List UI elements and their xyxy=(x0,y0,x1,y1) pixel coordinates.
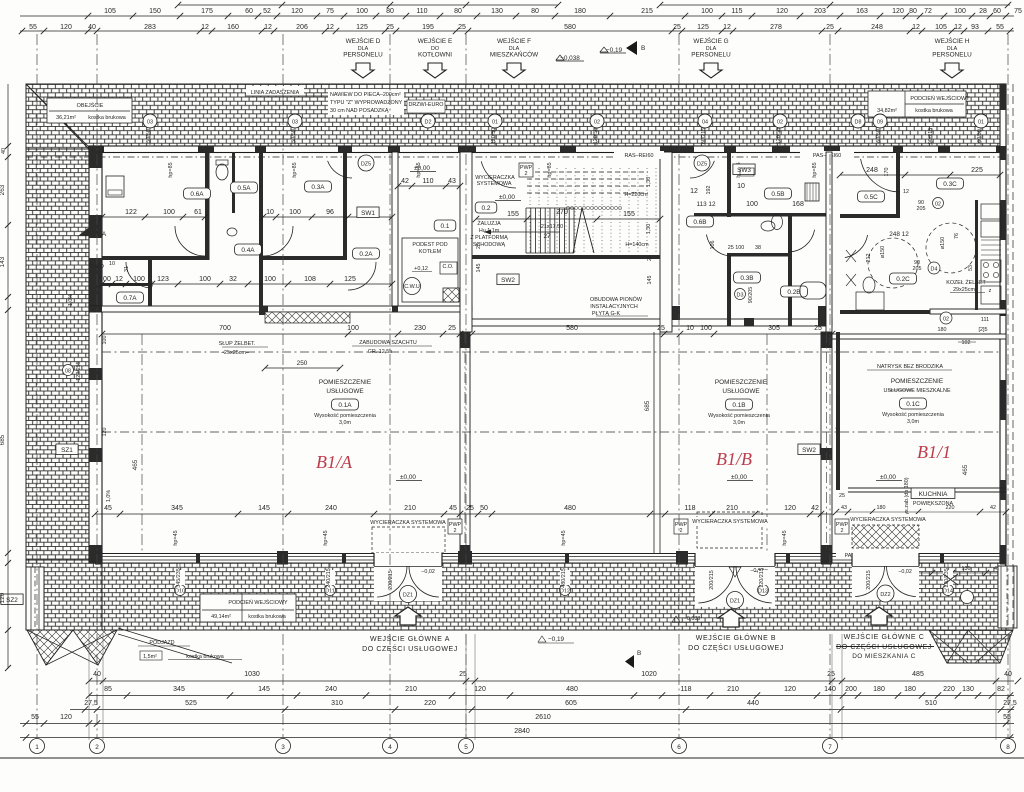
svg-text:PERSONELU: PERSONELU xyxy=(691,52,731,59)
kitchen wall xyxy=(975,200,978,310)
svg-text:12: 12 xyxy=(326,24,334,31)
svg-text:250: 250 xyxy=(297,360,308,367)
svg-text:168: 168 xyxy=(792,201,804,208)
small room wall h xyxy=(102,283,148,286)
D4 circle xyxy=(928,262,940,274)
svg-text:180: 180 xyxy=(904,686,916,693)
boiler icon xyxy=(443,288,459,302)
svg-text:90/205: 90/205 xyxy=(748,287,754,304)
drzwi label box xyxy=(407,100,445,113)
section marker B top xyxy=(626,41,637,55)
svg-text:200/215: 200/215 xyxy=(388,570,394,590)
svg-text:80/215: 80/215 xyxy=(701,128,707,145)
stair landing dashes xyxy=(527,171,648,173)
svg-text:100: 100 xyxy=(347,325,359,332)
room label 0.2A corridor xyxy=(353,248,380,259)
svg-text:525: 525 xyxy=(185,700,197,707)
svg-text:52: 52 xyxy=(263,8,271,15)
svg-text:±0,00: ±0,00 xyxy=(880,474,896,481)
svg-text:ŚCIANA REI60: ŚCIANA REI60 xyxy=(834,394,842,430)
svg-text:WEJŚCIE GŁÓWNE C: WEJŚCIE GŁÓWNE C xyxy=(844,632,925,641)
svg-text:100: 100 xyxy=(701,8,713,15)
canopy overhang dashed line xyxy=(26,156,1006,158)
svg-text:248: 248 xyxy=(866,167,878,174)
svg-text:55: 55 xyxy=(31,714,39,721)
svg-text:345: 345 xyxy=(173,686,185,693)
svg-text:215: 215 xyxy=(641,8,653,15)
svg-text:10: 10 xyxy=(266,209,274,216)
svg-text:12: 12 xyxy=(954,24,962,31)
svg-text:125: 125 xyxy=(356,24,368,31)
svg-text:283: 283 xyxy=(144,24,156,31)
svg-text:120: 120 xyxy=(892,8,904,15)
bottom-left paved corner (brick) xyxy=(26,560,102,630)
svg-text:WEJŚCIE H: WEJŚCIE H xyxy=(935,36,970,45)
svg-text:+0,12: +0,12 xyxy=(414,266,428,272)
svg-text:0.1B: 0.1B xyxy=(732,402,745,409)
stairwell wall left xyxy=(460,152,472,332)
svg-text:D8: D8 xyxy=(855,120,862,126)
svg-text:POMIESZCZENIE: POMIESZCZENIE xyxy=(319,379,371,386)
partition wall a4 xyxy=(343,152,347,260)
svg-text:130: 130 xyxy=(962,686,974,693)
right exterior wall xyxy=(1000,84,1006,563)
svg-text:38: 38 xyxy=(755,245,761,251)
svg-text:305: 305 xyxy=(768,325,780,332)
lower stair room SW2 xyxy=(497,274,519,285)
svg-text:120: 120 xyxy=(60,24,72,31)
svg-text:82: 82 xyxy=(997,686,1005,693)
svg-text:Wysokość pomieszczenia: Wysokość pomieszczenia xyxy=(882,412,944,418)
partition wall b2 h xyxy=(694,213,832,217)
left margin dim line xyxy=(7,84,9,668)
svg-text:09: 09 xyxy=(877,120,883,126)
svg-text:1,0%: 1,0% xyxy=(106,490,112,502)
circle chain xyxy=(566,206,569,209)
stair door arc xyxy=(481,161,516,188)
svg-text:02: 02 xyxy=(943,317,949,323)
svg-text:42: 42 xyxy=(401,178,409,185)
svg-text:10: 10 xyxy=(737,183,745,190)
svg-text:120/255: 120/255 xyxy=(76,361,82,381)
section marker B bottom xyxy=(625,655,634,668)
svg-text:PERSONELU: PERSONELU xyxy=(932,52,972,59)
svg-text:6: 6 xyxy=(677,744,681,751)
hall divider wall B/C xyxy=(821,332,832,563)
svg-text:200/215: 200/215 xyxy=(709,570,715,590)
partition wall b4 h xyxy=(727,253,788,257)
svg-text:PODCIEŃ WEJŚCIOWY: PODCIEŃ WEJŚCIOWY xyxy=(228,598,288,606)
svg-text:100: 100 xyxy=(954,8,966,15)
svg-text:DZ1: DZ1 xyxy=(730,599,740,605)
svg-text:hp=45: hp=45 xyxy=(323,530,329,545)
svg-text:12: 12 xyxy=(903,189,909,195)
svg-text:125: 125 xyxy=(344,276,356,283)
svg-text:0.1C: 0.1C xyxy=(906,401,920,408)
svg-text:0.3A: 0.3A xyxy=(311,184,325,191)
svg-text:2: 2 xyxy=(841,528,844,534)
door circle DZS mid xyxy=(694,155,710,171)
svg-text:DO CZĘŚCI USŁUGOWEJ: DO CZĘŚCI USŁUGOWEJ xyxy=(688,643,784,652)
paved canopy band (brick) xyxy=(26,84,1006,149)
svg-text:hp=45: hp=45 xyxy=(561,530,567,545)
svg-text:Wysokość pomieszczenia: Wysokość pomieszczenia xyxy=(708,413,770,419)
svg-text:60/50: 60/50 xyxy=(977,129,983,143)
svg-text:25: 25 xyxy=(839,493,845,499)
svg-text:[2]5: [2]5 xyxy=(979,327,988,333)
room 0.4A xyxy=(235,244,262,255)
svg-text:DZ2: DZ2 xyxy=(880,592,890,598)
svg-text:120/215: 120/215 xyxy=(759,568,765,588)
svg-text:115: 115 xyxy=(731,8,742,15)
svg-text:120: 120 xyxy=(0,592,6,603)
svg-text:50/50: 50/50 xyxy=(146,129,152,143)
svg-text:180: 180 xyxy=(873,686,885,693)
label LINIA ZADASZENIA xyxy=(246,86,304,96)
svg-text:3: 3 xyxy=(281,744,285,751)
room label 0.3A xyxy=(305,181,332,192)
svg-text:480: 480 xyxy=(566,686,578,693)
bath fixtures mid xyxy=(761,221,775,231)
svg-text:WEJŚCIE G: WEJŚCIE G xyxy=(693,36,728,45)
svg-text:110: 110 xyxy=(416,8,427,15)
svg-text:480/215: 480/215 xyxy=(561,568,567,588)
svg-text:111: 111 xyxy=(981,317,989,323)
svg-text:SW1: SW1 xyxy=(361,210,375,217)
svg-text:12: 12 xyxy=(690,188,698,195)
svg-text:12: 12 xyxy=(115,276,123,283)
svg-text:3,0m: 3,0m xyxy=(733,420,745,426)
svg-text:−0,02: −0,02 xyxy=(421,569,435,575)
svg-text:USŁUGOWE MIESZKALNE: USŁUGOWE MIESZKALNE xyxy=(883,388,951,394)
svg-text:ø150: ø150 xyxy=(940,237,946,249)
svg-text:85: 85 xyxy=(104,686,112,693)
svg-text:OBEJŚCIE: OBEJŚCIE xyxy=(77,101,104,109)
svg-text:4: 4 xyxy=(388,744,392,751)
svg-text:30 cm NAD POSADZKĄ: 30 cm NAD POSADZKĄ xyxy=(330,108,389,114)
svg-text:KOTŁEM: KOTŁEM xyxy=(419,249,442,255)
svg-text:0.6A: 0.6A xyxy=(190,191,204,198)
svg-text:−0,02: −0,02 xyxy=(898,569,912,575)
svg-text:hp=85: hp=85 xyxy=(292,162,298,177)
svg-text:WEJŚCIE E: WEJŚCIE E xyxy=(418,36,452,45)
svg-text:145: 145 xyxy=(258,505,270,512)
svg-text:180: 180 xyxy=(574,8,586,15)
svg-text:1,30: 1,30 xyxy=(646,224,652,235)
bottom paved band (brick) xyxy=(102,563,1006,630)
svg-text:440: 440 xyxy=(747,700,759,707)
svg-text:hp=85: hp=85 xyxy=(812,162,818,177)
svg-text:310: 310 xyxy=(331,700,343,707)
left exterior wall xyxy=(89,146,102,563)
svg-text:120: 120 xyxy=(784,686,796,693)
svg-text:Z PLATFORMĄ: Z PLATFORMĄ xyxy=(470,235,508,241)
partition wall b5 xyxy=(727,256,731,326)
svg-text:170: 170 xyxy=(884,168,890,177)
door arcs mid xyxy=(706,235,732,257)
svg-text:0.2A: 0.2A xyxy=(359,251,373,258)
svg-text:150: 150 xyxy=(149,8,161,15)
partition c2 h xyxy=(840,214,896,218)
svg-text:203: 203 xyxy=(814,8,826,15)
svg-text:kostka brukowa: kostka brukowa xyxy=(915,108,952,114)
CWU circle xyxy=(404,278,421,295)
svg-text:130: 130 xyxy=(491,8,503,15)
unit C wall v2 xyxy=(836,332,840,490)
switch SW1 xyxy=(357,207,379,218)
svg-text:SŁUP ŻELBET.: SŁUP ŻELBET. xyxy=(219,340,256,347)
svg-text:0.2B: 0.2B xyxy=(787,289,800,296)
pilaster strip right xyxy=(998,566,1017,628)
svg-text:90: 90 xyxy=(149,281,155,287)
svg-text:10: 10 xyxy=(686,325,694,332)
svg-text:kostka brukowa: kostka brukowa xyxy=(186,654,223,660)
entrance A recess xyxy=(374,553,442,601)
svg-text:25: 25 xyxy=(466,505,474,512)
svg-text:1030: 1030 xyxy=(244,671,260,678)
svg-text:WYCIERACZKA SYSTEMOWA: WYCIERACZKA SYSTEMOWA xyxy=(692,519,768,525)
svg-text:3,0m: 3,0m xyxy=(907,419,919,425)
svg-text:1020: 1020 xyxy=(641,671,657,678)
svg-text:±0,00: ±0,00 xyxy=(400,474,416,481)
svg-text:180: 180 xyxy=(877,505,886,511)
svg-text:z: z xyxy=(989,288,992,294)
svg-text:12: 12 xyxy=(264,24,272,31)
pilaster column left xyxy=(26,567,44,630)
svg-text:03: 03 xyxy=(292,120,298,126)
svg-text:2610: 2610 xyxy=(535,714,551,721)
svg-text:96: 96 xyxy=(326,209,334,216)
label box ODEJSCIE xyxy=(47,98,132,123)
svg-text:12: 12 xyxy=(912,24,920,31)
svg-text:D4: D4 xyxy=(931,267,938,273)
svg-text:OBUDOWA PIONÓW: OBUDOWA PIONÓW xyxy=(590,296,643,303)
svg-text:25: 25 xyxy=(647,255,653,261)
svg-text:60: 60 xyxy=(245,8,253,15)
svg-text:LINIA ZADASZENIA: LINIA ZADASZENIA xyxy=(251,90,300,96)
podcien wejsciowy label bottom xyxy=(200,594,296,622)
svg-text:53: 53 xyxy=(968,265,974,271)
svg-text:±0,00: ±0,00 xyxy=(499,194,515,201)
svg-text:145: 145 xyxy=(476,264,482,273)
svg-text:25: 25 xyxy=(827,671,835,678)
svg-text:SW2: SW2 xyxy=(501,277,515,284)
podjazd note xyxy=(118,628,232,663)
level triangle bottom xyxy=(729,567,741,577)
dim extension lines bottom xyxy=(88,634,90,740)
svg-text:0.5C: 0.5C xyxy=(864,194,878,201)
svg-text:60/50: 60/50 xyxy=(876,129,882,143)
svg-text:76: 76 xyxy=(954,233,960,239)
svg-text:0.3C: 0.3C xyxy=(943,181,957,188)
svg-text:WYCIERACZKA SYSTEMOWA: WYCIERACZKA SYSTEMOWA xyxy=(850,517,926,523)
svg-text:240: 240 xyxy=(325,686,337,693)
svg-text:RAS–REI60: RAS–REI60 xyxy=(624,153,653,159)
svg-text:NATRYSK BEZ BRODZIKA: NATRYSK BEZ BRODZIKA xyxy=(877,364,943,370)
stair cut diagonal xyxy=(573,208,582,253)
svg-text:25: 25 xyxy=(448,325,456,332)
svg-text:345/235: 345/235 xyxy=(176,568,182,588)
room label 0.64 xyxy=(184,188,211,199)
svg-text:105: 105 xyxy=(104,8,116,15)
svg-text:200/215: 200/215 xyxy=(866,570,872,590)
svg-text:−0,19: −0,19 xyxy=(548,636,565,643)
svg-text:60: 60 xyxy=(993,8,1001,15)
svg-text:36,21m²: 36,21m² xyxy=(56,115,76,121)
svg-text:hp=85: hp=85 xyxy=(168,162,174,177)
svg-text:ŻALUZJA: ŻALUZJA xyxy=(477,220,501,227)
PAS REI60 bottom xyxy=(836,550,882,559)
svg-text:hp=45: hp=45 xyxy=(173,530,179,545)
svg-text:55: 55 xyxy=(996,24,1004,31)
svg-text:ø150: ø150 xyxy=(880,246,886,258)
svg-text:H=220cm: H=220cm xyxy=(624,192,648,198)
partition wall a1 xyxy=(205,152,210,260)
wycieraczka mats xyxy=(372,527,445,553)
svg-text:12: 12 xyxy=(723,24,731,31)
right margin dash line xyxy=(1012,84,1014,630)
svg-text:2: 2 xyxy=(525,171,528,177)
svg-text:210: 210 xyxy=(726,505,738,512)
svg-text:D11: D11 xyxy=(325,589,335,595)
svg-text:45: 45 xyxy=(449,505,457,512)
grid circles xyxy=(30,739,45,754)
svg-text:Hu 1,1m: Hu 1,1m xyxy=(479,228,500,234)
svg-text:1: 1 xyxy=(35,744,39,751)
interior wall band bottom mid xyxy=(460,319,832,326)
window marks in bottom band xyxy=(175,585,186,596)
dimension chain top row C line xyxy=(20,30,1014,32)
svg-text:D10: D10 xyxy=(175,589,185,595)
svg-text:100: 100 xyxy=(746,201,758,208)
label box PODCIEN WEJSCIOWY top right xyxy=(868,91,966,117)
svg-text:240/215: 240/215 xyxy=(326,568,332,588)
partition wall a2 xyxy=(232,152,235,213)
svg-text:120: 120 xyxy=(291,8,303,15)
stair room label 0.2 xyxy=(475,202,497,213)
window axis dashes facade xyxy=(149,128,151,152)
svg-text:210: 210 xyxy=(404,505,416,512)
svg-text:WEJŚCIE GŁÓWNE A: WEJŚCIE GŁÓWNE A xyxy=(370,634,450,643)
svg-text:480: 480 xyxy=(564,505,576,512)
svg-text:−0,038: −0,038 xyxy=(684,616,701,622)
label box NAWIEW xyxy=(328,89,404,115)
svg-text:04: 04 xyxy=(702,120,708,126)
SZ2 label xyxy=(1,594,23,605)
hall divider thin mid/B xyxy=(653,332,655,553)
svg-text:D2: D2 xyxy=(425,120,432,126)
svg-text:2840: 2840 xyxy=(514,728,530,735)
right apartment lower labels xyxy=(940,312,952,324)
svg-text:DO CZĘŚCI USŁUGOWEJ: DO CZĘŚCI USŁUGOWEJ xyxy=(362,644,458,653)
svg-text:120/50: 120/50 xyxy=(593,128,599,145)
svg-text:–25x25cm–: –25x25cm– xyxy=(221,350,249,356)
svg-text:160: 160 xyxy=(227,24,239,31)
sciana REI60 wall xyxy=(826,152,832,332)
door arc room 0.3A xyxy=(263,226,293,256)
svg-text:2: 2 xyxy=(95,744,99,751)
svg-text:0.1: 0.1 xyxy=(441,223,450,230)
svg-text:DZ1: DZ1 xyxy=(403,593,413,599)
svg-text:B: B xyxy=(641,45,645,52)
door arc room 0.64 xyxy=(175,226,205,256)
svg-text:5: 5 xyxy=(464,744,468,751)
partition c1 xyxy=(896,152,900,218)
kuchnia box xyxy=(911,488,955,499)
svg-text:220: 220 xyxy=(424,700,436,707)
shower lines xyxy=(846,250,856,286)
svg-text:1,5m²: 1,5m² xyxy=(143,654,157,660)
svg-text:120: 120 xyxy=(102,428,108,437)
svg-text:248 12: 248 12 xyxy=(889,231,909,238)
svg-text:200: 200 xyxy=(845,686,857,693)
door circle DZ5 left xyxy=(358,155,374,171)
02 window circle xyxy=(933,198,944,209)
svg-text:wys.zab.(do 180): wys.zab.(do 180) xyxy=(904,477,910,519)
svg-text:155: 155 xyxy=(507,211,519,218)
svg-text:100: 100 xyxy=(264,276,276,283)
svg-text:02: 02 xyxy=(594,120,600,126)
svg-text:100: 100 xyxy=(289,209,301,216)
svg-text:0.7A: 0.7A xyxy=(123,295,137,302)
entrance B recess xyxy=(695,553,775,607)
boiler room wall left xyxy=(392,152,398,306)
svg-text:180: 180 xyxy=(938,327,947,333)
svg-text:42: 42 xyxy=(990,505,996,511)
svg-text:SYSTEMOWA: SYSTEMOWA xyxy=(477,181,512,187)
svg-text:225: 225 xyxy=(971,167,983,174)
kitchen fixtures xyxy=(981,204,1001,219)
svg-text:Wysokość pomieszczenia: Wysokość pomieszczenia xyxy=(314,413,376,419)
svg-text:100: 100 xyxy=(102,336,108,345)
svg-text:DZ5: DZ5 xyxy=(361,162,371,168)
svg-text:0.2C: 0.2C xyxy=(896,276,910,283)
svg-text:C.W.U: C.W.U xyxy=(404,284,420,290)
svg-text:122: 122 xyxy=(125,209,137,216)
washer icon xyxy=(106,176,124,197)
svg-text:210: 210 xyxy=(405,686,417,693)
svg-text:POMIESZCZENIE: POMIESZCZENIE xyxy=(715,379,767,386)
svg-text:220: 220 xyxy=(943,686,955,693)
svg-text:25: 25 xyxy=(814,325,822,332)
svg-text:230: 230 xyxy=(414,325,426,332)
svg-text:75: 75 xyxy=(326,8,334,15)
dimension chain top row A line xyxy=(178,4,558,6)
interior wall right kitchen xyxy=(930,309,1006,314)
svg-text:±0,00: ±0,00 xyxy=(731,474,747,481)
svg-text:123: 123 xyxy=(157,276,169,283)
window reference marks on top facade xyxy=(143,114,157,128)
svg-text:50/50: 50/50 xyxy=(291,129,297,143)
svg-text:0.4A: 0.4A xyxy=(241,247,255,254)
svg-text:465: 465 xyxy=(962,464,969,475)
svg-text:D12: D12 xyxy=(560,589,570,595)
svg-text:PODJAZD: PODJAZD xyxy=(149,640,174,646)
svg-text:01: 01 xyxy=(978,120,984,126)
svg-text:100: 100 xyxy=(356,8,368,15)
svg-text:TYPU "Z" WYPROWADZONY: TYPU "Z" WYPROWADZONY xyxy=(330,100,403,106)
svg-text:72: 72 xyxy=(924,8,932,15)
svg-text:POWIĘKSZONA: POWIĘKSZONA xyxy=(913,501,954,507)
svg-text:80: 80 xyxy=(454,8,462,15)
stairwell wall right xyxy=(660,152,672,332)
wall junction blocks xyxy=(664,306,680,320)
interior axis dash lines xyxy=(141,334,143,553)
svg-text:105: 105 xyxy=(935,24,947,31)
svg-text:D13: D13 xyxy=(758,589,768,595)
svg-text:90/215: 90/215 xyxy=(928,128,934,145)
bottom glass wall xyxy=(102,553,374,555)
